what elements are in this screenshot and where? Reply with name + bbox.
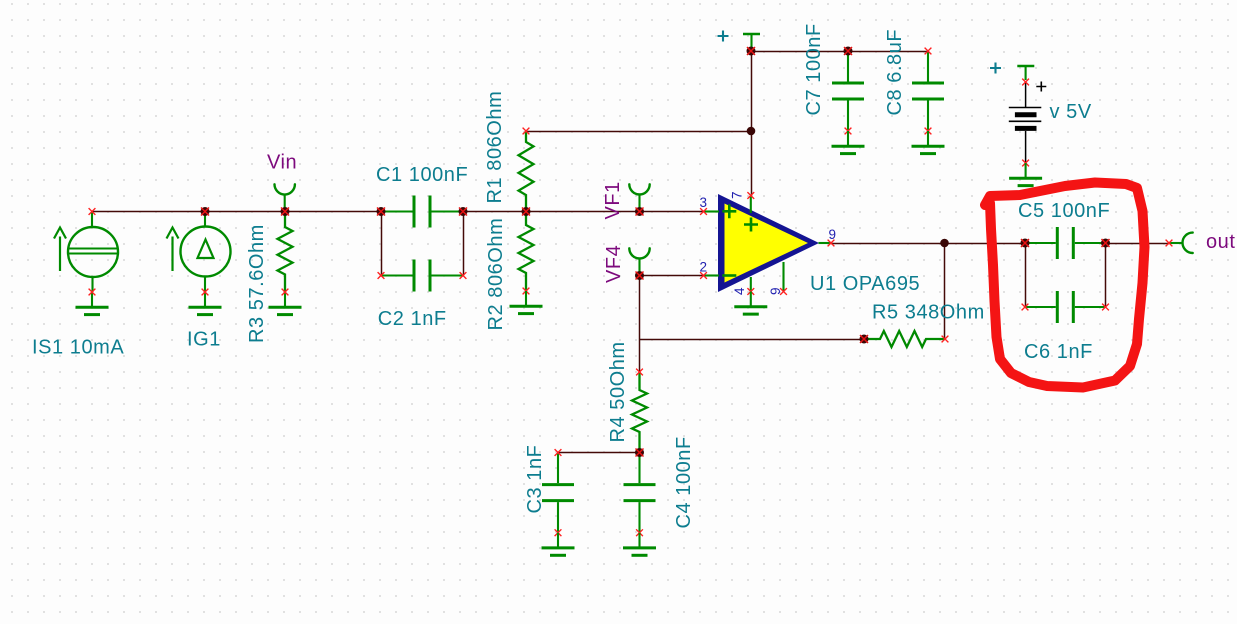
svg-text:VF4: VF4 (603, 245, 625, 283)
label R2 806Ohm (485, 218, 507, 331)
label C3 1nF (524, 445, 546, 514)
capacitor C4 (624, 453, 656, 536)
ground (C4) (623, 533, 656, 556)
label Vin (267, 152, 297, 174)
svg-text:R2 806Ohm: R2 806Ohm (485, 218, 507, 331)
label C1 100nF (376, 164, 468, 186)
label C6 1nF (1024, 341, 1093, 363)
svg-text:2: 2 (700, 260, 708, 275)
capacitor C5 (1024, 227, 1106, 259)
svg-text:Vin: Vin (267, 152, 297, 174)
svg-text:C1 100nF: C1 100nF (376, 164, 468, 186)
label VF1 (602, 181, 624, 219)
capacitor C8 (912, 48, 944, 135)
label R5 348Ohm (872, 302, 985, 324)
terminal Vin (274, 184, 294, 211)
label C5 100nF (1018, 200, 1110, 222)
svg-text:9: 9 (768, 287, 783, 295)
op-amp output lead pin 9 (819, 240, 835, 247)
op-amp pin 2 lead (700, 272, 719, 279)
label R4 50Ohm (607, 341, 629, 442)
junction top wire / supply drop (747, 127, 756, 136)
svg-text:IS1 10mA: IS1 10mA (32, 337, 124, 359)
junction Vin/R3/main wire (281, 207, 290, 216)
capacitor C7 (832, 51, 864, 134)
battery v 5V (1009, 79, 1047, 167)
junction C7 top (844, 47, 853, 56)
junction supply terminal (747, 47, 756, 56)
junction VF4 (635, 271, 644, 280)
wire: C1/C2 left vertical (381, 212, 383, 276)
svg-text:R1 806Ohm: R1 806Ohm (484, 91, 506, 204)
svg-text:U1 OPA695: U1 OPA695 (810, 273, 920, 295)
pin number 2 (700, 260, 708, 275)
pin number 4 (732, 287, 747, 295)
ground (battery) (1009, 163, 1042, 186)
junction VF1 (635, 207, 644, 216)
op-amp pin 7 lead (747, 192, 754, 213)
svg-text:VF1: VF1 (602, 181, 624, 219)
svg-text:7: 7 (730, 191, 745, 199)
terminal VF1 (629, 184, 649, 211)
label C8 6.8uF (884, 29, 906, 116)
op-amp U1 OPA695 (718, 194, 819, 292)
label v 5V (1050, 101, 1092, 123)
capacitor C2 (378, 260, 467, 292)
wire: VF4 node down to R4 (639, 276, 641, 373)
label C4 100nF (673, 436, 695, 528)
wire: supply terminal down to op-amp pin 7 (751, 51, 753, 196)
wire: main input net IS1 to C1 (92, 211, 381, 213)
wire: R4 bottom to C3 (558, 452, 640, 454)
svg-text:C5 100nF: C5 100nF (1018, 200, 1110, 222)
resistor R5 (864, 331, 948, 347)
label VF4 (603, 245, 625, 283)
svg-text:C2 1nF: C2 1nF (378, 308, 447, 330)
current source IS1 (54, 212, 118, 293)
wire: C1/C2 right vertical (463, 212, 465, 276)
red marker annotation circling C5 and C6 (985, 183, 1145, 388)
ground (R3) (269, 289, 302, 315)
battery terminal + (1017, 66, 1034, 80)
pin number 3 (700, 195, 708, 210)
svg-text:R3 57.6Ohm: R3 57.6Ohm (246, 224, 268, 343)
wire: feedback horizontal to R5 (640, 339, 865, 341)
svg-text:C6 1nF: C6 1nF (1024, 341, 1093, 363)
ground (R2) (510, 291, 543, 314)
terminal out (1166, 233, 1193, 253)
svg-text:R5 348Ohm: R5 348Ohm (872, 302, 985, 324)
plus sign (supply terminal) (718, 31, 729, 42)
wire: VF4 node to op-amp pin 2 (640, 275, 704, 277)
pin number 9 (output) (829, 227, 837, 242)
wire: C5 right to out terminal (1106, 243, 1170, 245)
terminal VF4 (629, 248, 649, 275)
junction C5 right (1101, 239, 1110, 248)
current source IG1 (167, 212, 231, 293)
node: IS1 top terminal (89, 208, 96, 215)
label C2 1nF (378, 308, 447, 330)
capacitor C6 (1022, 291, 1109, 323)
svg-text:3: 3 (700, 195, 708, 210)
svg-text:R4 50Ohm: R4 50Ohm (607, 341, 629, 442)
label R3 57.6Ohm (246, 224, 268, 343)
ground (C8) (912, 131, 945, 154)
ground (C7) (832, 131, 865, 154)
op-amp pin 4 lead (747, 277, 754, 295)
supply terminal VS+ (743, 34, 760, 50)
svg-text:9: 9 (829, 227, 837, 242)
resistor R3 (278, 212, 293, 293)
plus sign (battery terminal) (990, 63, 1001, 74)
svg-text:v 5V: v 5V (1050, 101, 1092, 123)
pin number 7 (730, 191, 745, 199)
junction C1 right (459, 207, 468, 216)
pin number 9 (stub) (768, 287, 783, 295)
label IG1 (187, 329, 221, 351)
svg-text:IG1: IG1 (187, 329, 221, 351)
junction C1 left (377, 207, 386, 216)
svg-text:C7 100nF: C7 100nF (803, 23, 825, 115)
wire: C1 right to op-amp pin 3 (463, 211, 704, 213)
junction IG1/main wire (201, 207, 210, 216)
svg-text:4: 4 (732, 287, 747, 295)
junction output / feedback (940, 239, 949, 248)
junction R4 bottom (635, 448, 644, 457)
label R1 806Ohm (484, 91, 506, 204)
capacitor C1 (381, 196, 463, 228)
ground (C3) (542, 533, 575, 556)
wire: supply rail to C7 C8 (751, 51, 928, 53)
op-amp pin 3 lead (700, 208, 719, 215)
wire: C5/C6 right vertical (1105, 243, 1107, 307)
label C7 100nF (803, 23, 825, 115)
resistor R4 (632, 369, 647, 453)
junction C5 left (1021, 239, 1030, 248)
junction R5 left (860, 335, 869, 344)
svg-text:C8 6.8uF: C8 6.8uF (884, 29, 906, 116)
svg-text:C3 1nF: C3 1nF (524, 445, 546, 514)
capacitor C3 (542, 449, 574, 536)
label out (1206, 231, 1235, 253)
wire: op-amp output to C5 (831, 243, 1025, 245)
label U1 OPA695 (810, 273, 920, 295)
resistor R2 (519, 212, 534, 295)
resistor R1 (519, 128, 534, 212)
ground (IG1) (189, 289, 222, 315)
wire: R5 right up to output (944, 243, 946, 339)
junction R1/R2 (522, 207, 531, 216)
op-amp pin 9 stub lead (780, 262, 787, 295)
label IS1 10mA (32, 337, 124, 359)
svg-text:out: out (1206, 231, 1235, 253)
ground (op-amp pin 4) (734, 292, 767, 315)
wire: C5/C6 left vertical (1025, 243, 1027, 307)
svg-text:C4 100nF: C4 100nF (673, 436, 695, 528)
ground (IS1) (76, 289, 109, 315)
wire: R1 top to supply node (526, 131, 751, 133)
